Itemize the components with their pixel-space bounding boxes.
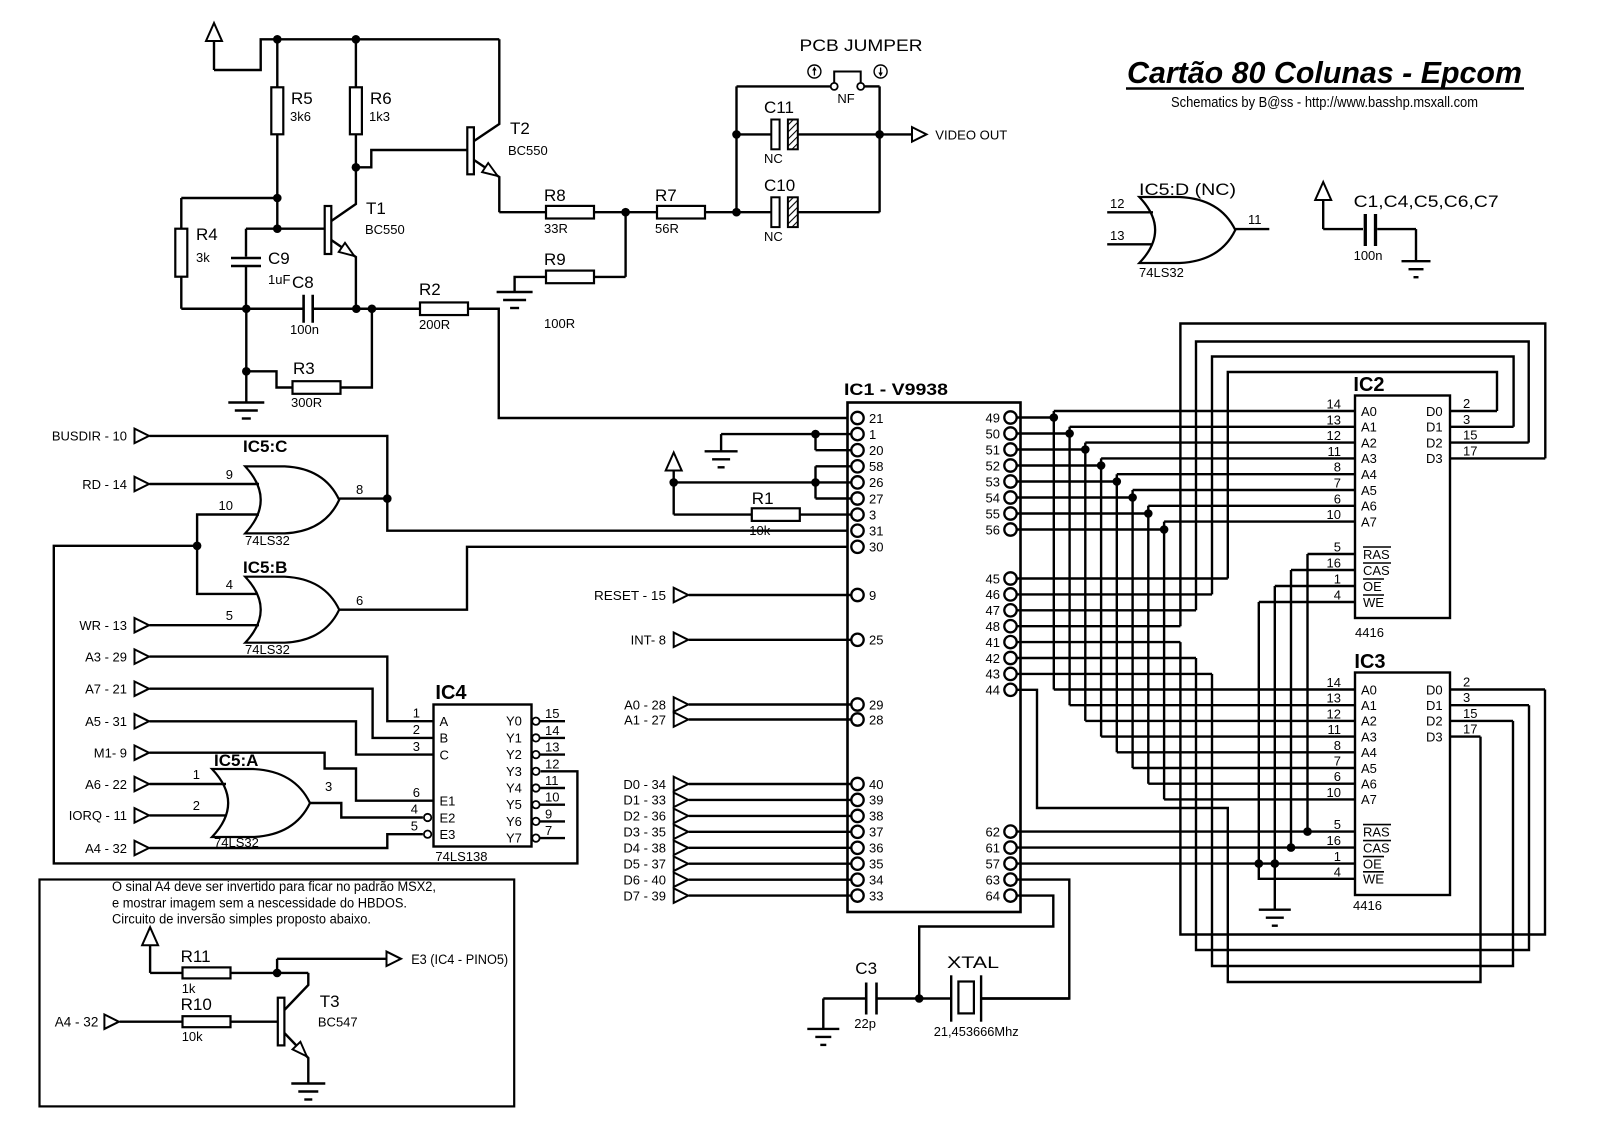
svg-text:7: 7 — [545, 823, 552, 838]
svg-text:IORQ - 11: IORQ - 11 — [69, 808, 127, 823]
svg-text:3: 3 — [413, 739, 420, 754]
svg-text:57: 57 — [986, 856, 1000, 871]
svg-text:33: 33 — [869, 888, 883, 903]
svg-text:74LS138: 74LS138 — [435, 849, 487, 864]
svg-text:Cartão 80 Colunas - Epcom: Cartão 80 Colunas - Epcom — [1127, 55, 1522, 90]
svg-text:2: 2 — [1463, 396, 1470, 411]
svg-text:1: 1 — [869, 427, 876, 442]
svg-text:NC: NC — [764, 229, 783, 244]
svg-text:WE: WE — [1363, 872, 1384, 887]
svg-text:41: 41 — [986, 635, 1000, 650]
svg-text:D1: D1 — [1426, 698, 1443, 713]
svg-text:O sinal A4 deve ser invertido: O sinal A4 deve ser invertido para ficar… — [112, 879, 436, 894]
svg-text:Y0: Y0 — [506, 714, 522, 729]
svg-text:42: 42 — [986, 651, 1000, 666]
svg-text:27: 27 — [869, 491, 883, 506]
svg-text:31: 31 — [869, 524, 883, 539]
svg-text:R1: R1 — [752, 489, 774, 508]
svg-text:7: 7 — [1334, 476, 1341, 491]
svg-text:13: 13 — [1327, 691, 1341, 706]
svg-text:43: 43 — [986, 667, 1000, 682]
svg-text:A1: A1 — [1361, 420, 1377, 435]
svg-text:11: 11 — [1328, 722, 1342, 737]
svg-text:26: 26 — [869, 475, 883, 490]
svg-text:100R: 100R — [544, 316, 575, 331]
svg-text:6: 6 — [1334, 769, 1341, 784]
svg-text:RAS: RAS — [1363, 547, 1390, 562]
svg-text:E1: E1 — [440, 794, 456, 809]
svg-text:10: 10 — [545, 790, 559, 805]
svg-text:44: 44 — [986, 683, 1000, 698]
svg-text:2: 2 — [1463, 675, 1470, 690]
svg-text:64: 64 — [986, 888, 1000, 903]
svg-text:R5: R5 — [291, 89, 313, 108]
svg-text:BC547: BC547 — [318, 1015, 358, 1030]
svg-text:Y6: Y6 — [506, 814, 522, 829]
svg-text:T3: T3 — [320, 992, 340, 1011]
svg-text:51: 51 — [986, 442, 1000, 457]
svg-text:45: 45 — [986, 571, 1000, 586]
svg-text:3: 3 — [1463, 412, 1470, 427]
svg-text:R2: R2 — [419, 280, 441, 299]
svg-text:IC5:C: IC5:C — [243, 437, 287, 456]
svg-text:CAS: CAS — [1363, 840, 1390, 855]
svg-text:11: 11 — [1328, 444, 1342, 459]
svg-text:C8: C8 — [292, 273, 314, 292]
svg-text:58: 58 — [869, 459, 883, 474]
svg-text:1: 1 — [413, 706, 420, 721]
svg-text:D2: D2 — [1426, 714, 1443, 729]
svg-text:3k6: 3k6 — [290, 109, 311, 124]
svg-text:D2: D2 — [1426, 435, 1443, 450]
svg-text:35: 35 — [869, 857, 883, 872]
svg-text:D3: D3 — [1426, 451, 1443, 466]
svg-text:D1: D1 — [1426, 420, 1443, 435]
svg-text:6: 6 — [413, 785, 420, 800]
svg-text:M1- 9: M1- 9 — [94, 746, 127, 761]
svg-text:A1: A1 — [1361, 698, 1377, 713]
svg-text:17: 17 — [1463, 722, 1477, 737]
svg-text:A7: A7 — [1361, 514, 1377, 529]
svg-text:Y4: Y4 — [506, 781, 522, 796]
svg-text:17: 17 — [1463, 443, 1477, 458]
svg-text:A0: A0 — [1361, 404, 1377, 419]
svg-text:Y7: Y7 — [506, 831, 522, 846]
svg-text:IC1 - V9938: IC1 - V9938 — [844, 380, 948, 399]
svg-text:VIDEO OUT: VIDEO OUT — [935, 128, 1007, 143]
svg-text:BUSDIR - 10: BUSDIR - 10 — [52, 429, 127, 444]
svg-text:28: 28 — [869, 712, 883, 727]
svg-text:R6: R6 — [370, 89, 392, 108]
svg-text:11: 11 — [545, 773, 559, 788]
svg-text:1: 1 — [1334, 572, 1341, 587]
svg-text:9: 9 — [545, 806, 552, 821]
svg-text:OE: OE — [1363, 856, 1382, 871]
svg-text:Circuito de inversão simples p: Circuito de inversão simples proposto ab… — [112, 912, 371, 927]
svg-text:200R: 200R — [419, 317, 450, 332]
svg-text:13: 13 — [545, 740, 559, 755]
svg-text:D4 - 38: D4 - 38 — [623, 841, 666, 856]
svg-text:T2: T2 — [510, 119, 530, 138]
svg-text:38: 38 — [869, 809, 883, 824]
svg-text:9: 9 — [869, 588, 876, 603]
svg-text:IC2: IC2 — [1353, 374, 1384, 396]
svg-text:12: 12 — [1327, 428, 1341, 443]
svg-text:Y2: Y2 — [506, 747, 522, 762]
svg-text:C9: C9 — [268, 249, 290, 268]
svg-text:BC550: BC550 — [508, 143, 548, 158]
svg-text:10: 10 — [1327, 785, 1341, 800]
svg-text:A3: A3 — [1361, 451, 1377, 466]
svg-text:3: 3 — [1463, 690, 1470, 705]
svg-text:R3: R3 — [293, 359, 315, 378]
svg-text:R4: R4 — [196, 225, 218, 244]
svg-text:10: 10 — [1327, 507, 1341, 522]
svg-text:46: 46 — [986, 587, 1000, 602]
svg-text:37: 37 — [869, 825, 883, 840]
svg-text:13: 13 — [1110, 228, 1124, 243]
svg-text:R11: R11 — [181, 947, 211, 966]
svg-text:D1 - 33: D1 - 33 — [623, 793, 666, 808]
svg-text:53: 53 — [986, 474, 1000, 489]
svg-text:56: 56 — [986, 522, 1000, 537]
svg-text:47: 47 — [986, 603, 1000, 618]
svg-text:12: 12 — [1110, 196, 1124, 211]
svg-text:E3 (IC4 - PINO5): E3 (IC4 - PINO5) — [411, 952, 508, 967]
svg-text:C11: C11 — [764, 98, 794, 117]
svg-text:C1,C4,C5,C6,C7: C1,C4,C5,C6,C7 — [1354, 192, 1499, 211]
svg-text:D3: D3 — [1426, 729, 1443, 744]
svg-text:B: B — [440, 731, 449, 746]
svg-text:R9: R9 — [544, 250, 566, 269]
svg-text:D6 - 40: D6 - 40 — [623, 873, 666, 888]
svg-text:8: 8 — [1334, 460, 1341, 475]
svg-text:4: 4 — [1334, 588, 1341, 603]
svg-text:A4 - 32: A4 - 32 — [85, 841, 127, 856]
svg-text:A2: A2 — [1361, 435, 1377, 450]
svg-text:C3: C3 — [855, 959, 877, 978]
svg-text:RESET - 15: RESET - 15 — [594, 588, 666, 603]
svg-text:BC550: BC550 — [365, 222, 405, 237]
svg-text:A4: A4 — [1361, 745, 1377, 760]
svg-text:1k3: 1k3 — [369, 109, 390, 124]
svg-text:A7: A7 — [1361, 792, 1377, 807]
svg-text:A0 - 28: A0 - 28 — [624, 697, 666, 712]
svg-text:20: 20 — [869, 443, 883, 458]
svg-text:WE: WE — [1363, 595, 1384, 610]
svg-text:2: 2 — [193, 798, 200, 813]
svg-text:34: 34 — [869, 873, 883, 888]
svg-text:6: 6 — [356, 593, 363, 608]
svg-text:10k: 10k — [182, 1029, 203, 1044]
svg-text:NC: NC — [764, 151, 783, 166]
svg-text:22p: 22p — [854, 1016, 876, 1031]
svg-text:5: 5 — [411, 818, 418, 833]
svg-text:10: 10 — [219, 498, 233, 513]
svg-text:100n: 100n — [1354, 248, 1383, 263]
svg-text:1: 1 — [1334, 849, 1341, 864]
svg-text:3: 3 — [325, 779, 332, 794]
svg-text:36: 36 — [869, 841, 883, 856]
svg-text:48: 48 — [986, 619, 1000, 634]
svg-text:13: 13 — [1327, 412, 1341, 427]
svg-text:RAS: RAS — [1363, 824, 1390, 839]
svg-text:21,453666Mhz: 21,453666Mhz — [934, 1024, 1019, 1039]
svg-text:WR - 13: WR - 13 — [79, 618, 127, 633]
svg-text:A2: A2 — [1361, 714, 1377, 729]
svg-text:5: 5 — [1334, 540, 1341, 555]
svg-text:8: 8 — [1334, 738, 1341, 753]
svg-text:D2 - 36: D2 - 36 — [623, 809, 666, 824]
svg-text:300R: 300R — [291, 395, 322, 410]
svg-text:5: 5 — [226, 608, 233, 623]
svg-text:OE: OE — [1363, 579, 1382, 594]
svg-text:21: 21 — [869, 411, 883, 426]
svg-text:A5: A5 — [1361, 761, 1377, 776]
svg-text:Y5: Y5 — [506, 797, 522, 812]
svg-text:12: 12 — [1327, 706, 1341, 721]
svg-text:Y1: Y1 — [506, 730, 522, 745]
svg-text:T1: T1 — [366, 199, 386, 218]
svg-text:D0: D0 — [1426, 404, 1443, 419]
svg-text:54: 54 — [986, 490, 1000, 505]
svg-text:5: 5 — [1334, 817, 1341, 832]
svg-text:1k: 1k — [182, 981, 196, 996]
svg-text:49: 49 — [986, 410, 1000, 425]
svg-text:74LS32: 74LS32 — [1139, 265, 1184, 280]
svg-text:4: 4 — [411, 802, 418, 817]
svg-text:55: 55 — [986, 506, 1000, 521]
svg-text:3: 3 — [869, 507, 876, 522]
svg-text:RD - 14: RD - 14 — [82, 477, 127, 492]
svg-text:Schematics by B@ss - http://ww: Schematics by B@ss - http://www.basshp.m… — [1171, 94, 1478, 111]
svg-text:1: 1 — [193, 767, 200, 782]
svg-text:D0 - 34: D0 - 34 — [623, 777, 666, 792]
svg-text:IC4: IC4 — [435, 682, 467, 704]
svg-text:74LS32: 74LS32 — [245, 642, 290, 657]
svg-text:15: 15 — [1463, 428, 1477, 443]
svg-text:e mostrar imagem sem a nescess: e mostrar imagem sem a nescessidade do H… — [112, 896, 407, 911]
svg-text:4416: 4416 — [1355, 625, 1384, 640]
svg-text:62: 62 — [986, 824, 1000, 839]
svg-text:A6 - 22: A6 - 22 — [85, 777, 127, 792]
svg-text:10k: 10k — [749, 523, 770, 538]
svg-text:A4: A4 — [1361, 467, 1377, 482]
svg-text:7: 7 — [1334, 754, 1341, 769]
svg-text:14: 14 — [1327, 397, 1341, 412]
svg-text:63: 63 — [986, 872, 1000, 887]
svg-text:33R: 33R — [544, 221, 568, 236]
svg-text:12: 12 — [545, 756, 559, 771]
svg-text:15: 15 — [545, 706, 559, 721]
svg-text:R8: R8 — [544, 186, 566, 205]
svg-text:XTAL: XTAL — [947, 953, 999, 972]
svg-text:C10: C10 — [764, 176, 795, 195]
svg-text:PCB JUMPER: PCB JUMPER — [800, 36, 923, 55]
svg-text:A6: A6 — [1361, 499, 1377, 514]
svg-text:39: 39 — [869, 793, 883, 808]
svg-text:100n: 100n — [290, 322, 319, 337]
svg-text:29: 29 — [869, 697, 883, 712]
svg-text:4: 4 — [1334, 864, 1341, 879]
svg-text:R10: R10 — [181, 995, 212, 1014]
svg-text:D0: D0 — [1426, 682, 1443, 697]
svg-text:A5 - 31: A5 - 31 — [85, 714, 127, 729]
svg-text:E2: E2 — [440, 810, 456, 825]
svg-text:C: C — [440, 747, 449, 762]
svg-text:1uF: 1uF — [268, 272, 290, 287]
svg-text:6: 6 — [1334, 491, 1341, 506]
svg-text:3k: 3k — [196, 250, 210, 265]
svg-text:A6: A6 — [1361, 777, 1377, 792]
svg-text:A4 - 32: A4 - 32 — [55, 1015, 99, 1030]
svg-text:A5: A5 — [1361, 483, 1377, 498]
svg-text:4: 4 — [226, 577, 233, 592]
svg-text:16: 16 — [1327, 833, 1341, 848]
svg-text:D7 - 39: D7 - 39 — [623, 888, 666, 903]
svg-text:50: 50 — [986, 426, 1000, 441]
svg-text:A3: A3 — [1361, 729, 1377, 744]
svg-text:Y3: Y3 — [506, 764, 522, 779]
svg-text:NF: NF — [837, 91, 854, 106]
svg-text:E3: E3 — [440, 827, 456, 842]
svg-text:15: 15 — [1463, 706, 1477, 721]
svg-text:IC3: IC3 — [1354, 651, 1385, 673]
svg-text:14: 14 — [1327, 675, 1341, 690]
svg-text:56R: 56R — [655, 221, 679, 236]
svg-text:D3 - 35: D3 - 35 — [623, 825, 666, 840]
svg-text:A1 - 27: A1 - 27 — [624, 712, 666, 727]
svg-text:4416: 4416 — [1353, 898, 1382, 913]
svg-text:14: 14 — [545, 723, 559, 738]
svg-text:R7: R7 — [655, 186, 677, 205]
svg-text:25: 25 — [869, 633, 883, 648]
svg-text:61: 61 — [986, 840, 1000, 855]
svg-text:INT- 8: INT- 8 — [631, 633, 666, 648]
svg-text:8: 8 — [356, 482, 363, 497]
svg-text:11: 11 — [1248, 212, 1262, 227]
svg-text:2: 2 — [413, 722, 420, 737]
svg-text:A0: A0 — [1361, 682, 1377, 697]
svg-text:74LS32: 74LS32 — [245, 533, 290, 548]
svg-text:IC5:B: IC5:B — [243, 558, 287, 577]
svg-text:CAS: CAS — [1363, 563, 1390, 578]
svg-text:9: 9 — [226, 467, 233, 482]
svg-text:A3 - 29: A3 - 29 — [85, 649, 127, 664]
svg-text:52: 52 — [986, 458, 1000, 473]
svg-text:D5 - 37: D5 - 37 — [623, 857, 666, 872]
svg-text:40: 40 — [869, 777, 883, 792]
svg-text:A: A — [440, 714, 449, 729]
svg-text:16: 16 — [1327, 556, 1341, 571]
svg-text:30: 30 — [869, 540, 883, 555]
svg-text:A7 - 21: A7 - 21 — [85, 682, 127, 697]
